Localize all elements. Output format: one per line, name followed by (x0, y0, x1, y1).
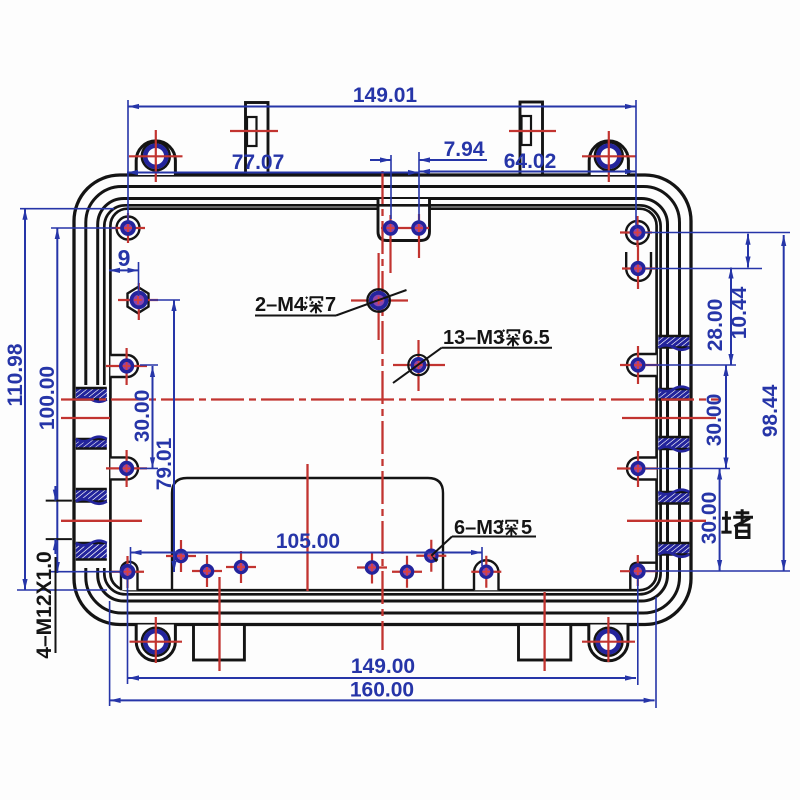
svg-text:79.01: 79.01 (153, 437, 176, 490)
svg-text:110.98: 110.98 (4, 343, 27, 406)
svg-text:30.00: 30.00 (703, 394, 726, 447)
svg-text:30.00: 30.00 (131, 390, 154, 443)
svg-text:4–M12X1.0: 4–M12X1.0 (33, 551, 56, 658)
svg-text:105.00: 105.00 (276, 530, 340, 553)
svg-text:64.02: 64.02 (504, 150, 557, 173)
svg-text:2–M4: 2–M4 (255, 294, 306, 316)
svg-text:149.01: 149.01 (353, 84, 418, 107)
svg-text:30.00: 30.00 (698, 492, 721, 545)
svg-text:28.00: 28.00 (704, 299, 727, 352)
svg-text:100.00: 100.00 (36, 366, 59, 430)
svg-text:6.5: 6.5 (522, 327, 550, 349)
svg-text:13–M3: 13–M3 (443, 327, 504, 349)
svg-text:160.00: 160.00 (350, 679, 414, 702)
svg-text:77.07: 77.07 (232, 151, 285, 174)
svg-text:9: 9 (118, 245, 131, 271)
svg-text:149.00: 149.00 (351, 655, 415, 678)
svg-text:7.94: 7.94 (444, 138, 485, 161)
svg-text:98.44: 98.44 (759, 384, 782, 437)
svg-text:7: 7 (325, 294, 336, 316)
